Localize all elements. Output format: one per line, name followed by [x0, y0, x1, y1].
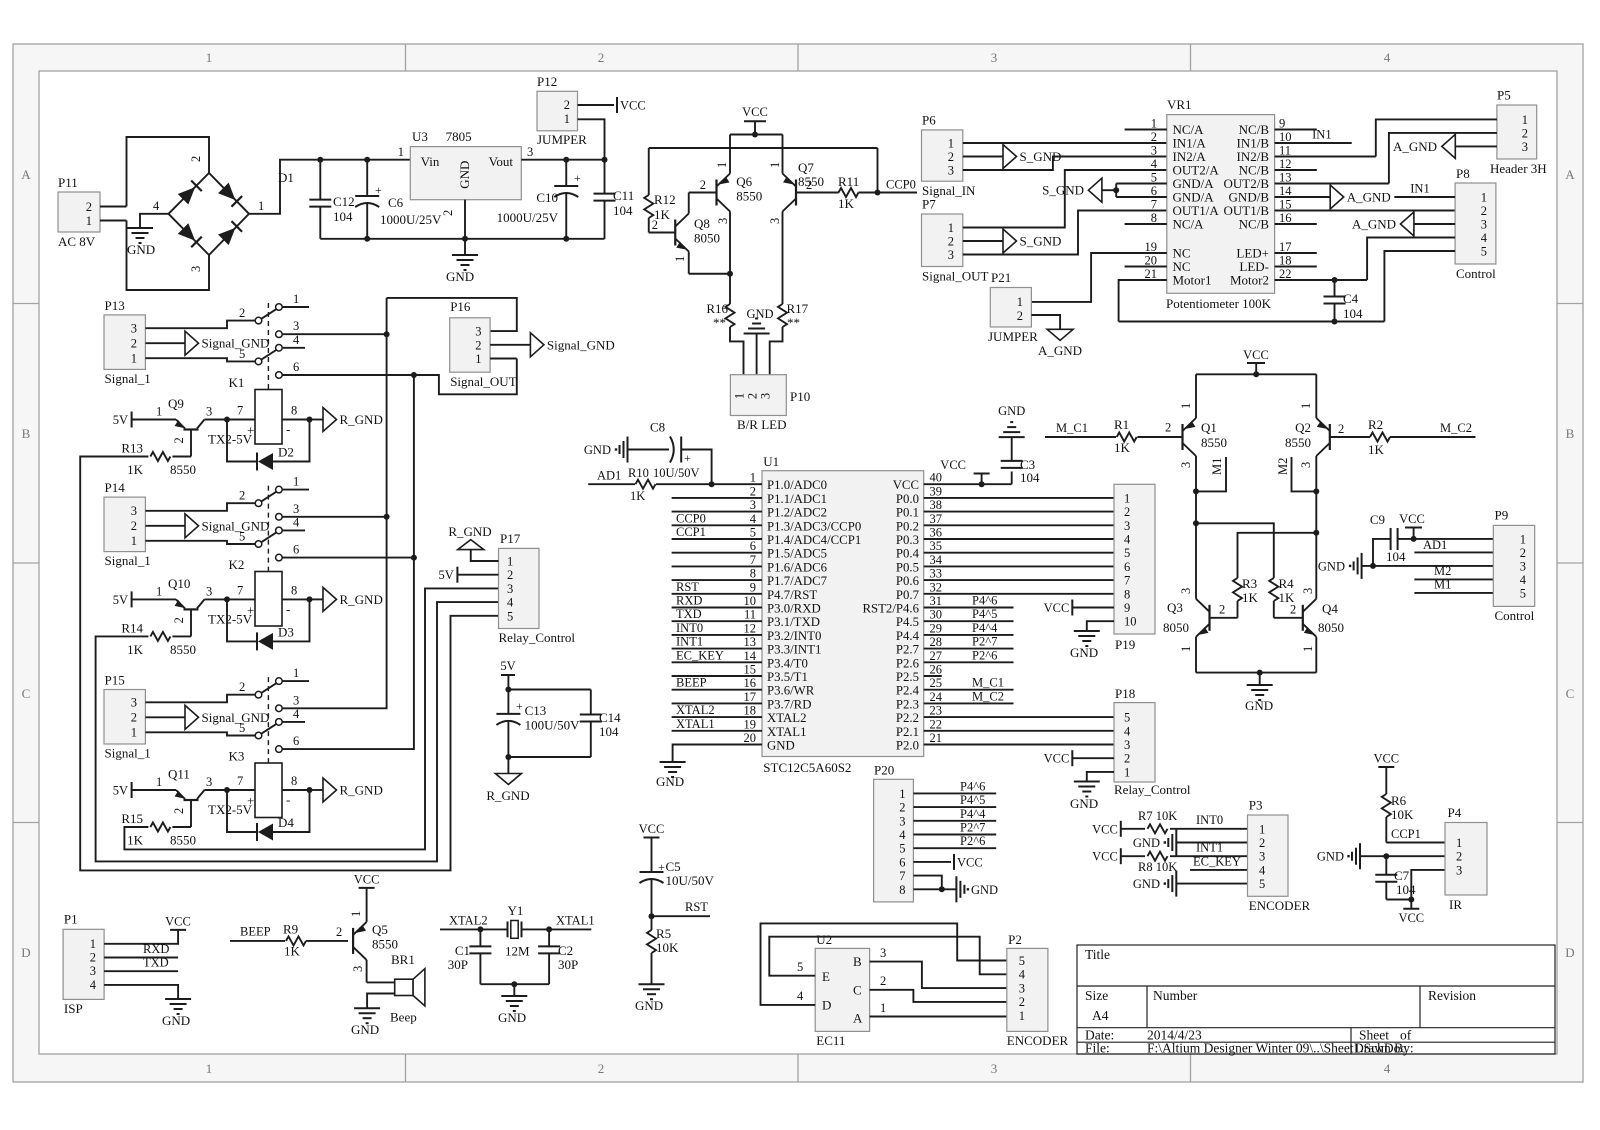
mechanical link dashed — [267, 486, 269, 572]
svg-text:1: 1 — [349, 911, 363, 917]
svg-text:P1.7/ADC7: P1.7/ADC7 — [767, 574, 828, 588]
svg-text:2: 2 — [746, 393, 760, 399]
capacitor C11 — [604, 160, 606, 194]
wire contact 4 stub — [282, 529, 305, 531]
wire 5V to Q10 — [132, 598, 176, 600]
svg-text:1: 1 — [673, 256, 687, 262]
wire VR1 pin1 stub — [1125, 129, 1167, 131]
svg-text:S_GND: S_GND — [1042, 183, 1084, 198]
svg-text:P2.7: P2.7 — [896, 643, 920, 657]
connector P8 — [1455, 183, 1496, 264]
capacitor C1 — [479, 929, 481, 946]
bridge diode top-right — [218, 183, 235, 200]
svg-text:7: 7 — [237, 404, 243, 418]
svg-text:GND: GND — [457, 161, 472, 189]
power VCC — [616, 97, 618, 113]
svg-text:1K: 1K — [1114, 440, 1131, 455]
switch contacts — [255, 691, 262, 698]
svg-text:38: 38 — [930, 498, 943, 512]
svg-text:2: 2 — [598, 1061, 605, 1076]
svg-text:Signal_1: Signal_1 — [105, 746, 151, 761]
svg-text:VCC: VCC — [1092, 850, 1118, 864]
bridge diode top-left — [178, 187, 195, 204]
svg-text:104: 104 — [1343, 306, 1363, 321]
connector P15 — [104, 690, 145, 745]
power port S_GND — [1003, 229, 1017, 253]
net AD1 / resistor R10 / pin1 — [588, 483, 635, 485]
ground side — [1175, 830, 1177, 856]
svg-text:M1: M1 — [1434, 578, 1451, 592]
svg-text:ENCODER: ENCODER — [1007, 1033, 1069, 1048]
svg-text:VCC: VCC — [957, 855, 983, 869]
capacitor C13 — [507, 690, 509, 714]
wire VR1 pin21 Motor1 — [1119, 280, 1167, 322]
wire VCC rail — [1196, 373, 1316, 375]
svg-text:Q11: Q11 — [168, 767, 190, 782]
svg-text:P3.5/T1: P3.5/T1 — [767, 670, 808, 684]
svg-text:4: 4 — [899, 828, 906, 842]
svg-text:VCC: VCC — [940, 458, 966, 472]
svg-text:Revision: Revision — [1428, 988, 1476, 1003]
svg-text:R13: R13 — [121, 441, 143, 456]
wire P16 pin1 — [490, 358, 517, 360]
mechanical link dashed — [267, 303, 269, 390]
wire P3 pin4 — [1190, 869, 1248, 871]
wire VR1 pin14 A_GND — [1275, 196, 1331, 198]
svg-text:8: 8 — [1124, 587, 1130, 601]
wire U1 left pins — [672, 497, 762, 499]
svg-text:Vin: Vin — [421, 154, 440, 169]
wire contact 1 stub — [282, 680, 309, 682]
svg-text:P4.5: P4.5 — [896, 615, 919, 629]
svg-text:8: 8 — [750, 567, 756, 581]
svg-text:1: 1 — [750, 471, 756, 485]
svg-text:-: - — [286, 422, 290, 437]
svg-text:1: 1 — [1019, 1009, 1025, 1023]
svg-text:13: 13 — [744, 635, 757, 649]
wire RST — [652, 915, 711, 917]
net M2 — [1313, 488, 1319, 494]
svg-text:P4^4: P4^4 — [960, 807, 986, 821]
wire P15 pin1 to contact 5 — [145, 732, 255, 735]
svg-text:P1.4/ADC4/CCP1: P1.4/ADC4/CCP1 — [767, 533, 861, 547]
svg-text:B: B — [1566, 426, 1575, 441]
wire bus contacts-6 — [282, 359, 517, 395]
wire P4 pin2 GND — [1360, 855, 1445, 857]
svg-text:P8: P8 — [1456, 166, 1470, 181]
svg-text:10: 10 — [744, 594, 757, 608]
svg-text:P6: P6 — [922, 113, 936, 128]
svg-text:1: 1 — [715, 162, 729, 168]
svg-text:P1.1/ADC1: P1.1/ADC1 — [767, 492, 827, 506]
wire Q9 base — [190, 430, 192, 457]
wire K2 pin8 — [282, 598, 310, 600]
svg-text:7: 7 — [899, 869, 905, 883]
svg-text:File:: File: — [1085, 1041, 1110, 1056]
net M_C1 pin25 — [924, 689, 1014, 691]
svg-text:4: 4 — [1259, 863, 1266, 877]
wire K3 pin8 — [282, 789, 310, 791]
svg-text:1: 1 — [1179, 646, 1193, 652]
svg-text:GND: GND — [1133, 877, 1160, 891]
svg-text:2: 2 — [86, 200, 92, 214]
connector P1 — [63, 929, 104, 999]
svg-text:R_GND: R_GND — [340, 592, 383, 607]
switch contacts — [255, 500, 262, 507]
svg-text:4: 4 — [90, 978, 97, 992]
svg-text:2: 2 — [1165, 421, 1171, 435]
power 5V P17 pin2 — [456, 567, 458, 583]
wire C7 bottom to VCC and P4 pin3 — [1386, 899, 1411, 901]
svg-text:1: 1 — [1179, 403, 1193, 409]
wire A_GND bottom rail — [1119, 321, 1385, 323]
svg-text:8: 8 — [899, 883, 905, 897]
svg-text:C8: C8 — [650, 420, 665, 435]
svg-text:Title: Title — [1085, 947, 1110, 962]
svg-text:D: D — [1565, 945, 1574, 960]
svg-text:104: 104 — [1020, 470, 1040, 485]
svg-text:R3: R3 — [1242, 576, 1257, 591]
svg-text:D: D — [822, 998, 831, 1013]
svg-text:5V: 5V — [113, 784, 128, 798]
svg-text:5: 5 — [1019, 954, 1025, 968]
svg-text:Header 3H: Header 3H — [1490, 161, 1547, 176]
transistor Q10 8550 — [184, 608, 199, 610]
svg-text:9: 9 — [1124, 601, 1130, 615]
connector P11 — [58, 192, 100, 232]
svg-text:2: 2 — [1290, 603, 1296, 617]
svg-text:20: 20 — [1145, 254, 1158, 268]
svg-text:GND: GND — [971, 883, 998, 897]
svg-text:30: 30 — [930, 608, 943, 622]
svg-text:R9: R9 — [283, 922, 298, 937]
wire Q11 collector — [205, 789, 256, 791]
wire Q5 collector to speaker — [367, 981, 395, 983]
svg-text:P4^5: P4^5 — [972, 607, 997, 621]
svg-text:3: 3 — [991, 50, 998, 65]
resistor R8 — [1121, 855, 1145, 857]
wire P8 pin5 — [1384, 251, 1455, 322]
wire Q8 base — [649, 232, 676, 234]
svg-text:EC_KEY: EC_KEY — [1193, 855, 1241, 869]
resistor R1 — [1117, 433, 1137, 442]
svg-text:17: 17 — [744, 690, 757, 704]
svg-text:6: 6 — [293, 734, 299, 748]
svg-text:31: 31 — [930, 594, 943, 608]
svg-text:3: 3 — [1124, 519, 1130, 533]
wire BEEP — [230, 940, 285, 942]
svg-text:3: 3 — [1179, 588, 1193, 594]
svg-text:3: 3 — [991, 1061, 998, 1076]
svg-text:1K: 1K — [284, 944, 301, 959]
wire XTAL2 — [440, 928, 507, 930]
resistor R6 — [1382, 794, 1391, 817]
svg-text:XTAL1: XTAL1 — [767, 725, 807, 739]
transistor Q6 8550 — [715, 180, 717, 206]
wire VR1 pin15 to P8 pin2 — [1275, 210, 1456, 212]
transistor Q9 8550 — [184, 428, 199, 430]
svg-text:EC_KEY: EC_KEY — [676, 648, 724, 662]
svg-text:C4: C4 — [1343, 291, 1359, 306]
resistor R13 — [172, 456, 191, 458]
svg-text:P12: P12 — [537, 74, 557, 89]
svg-text:P19: P19 — [1115, 637, 1135, 652]
wire Q2 base to R2 — [1330, 436, 1370, 438]
wire P8 pin4 — [1367, 238, 1455, 281]
wire cross couple right — [1313, 530, 1319, 536]
svg-text:3: 3 — [206, 775, 212, 789]
svg-text:1: 1 — [258, 199, 264, 213]
svg-text:Relay_Control: Relay_Control — [499, 630, 576, 645]
svg-text:Size: Size — [1085, 988, 1108, 1003]
svg-text:CCP1: CCP1 — [1391, 827, 1421, 841]
IC U2 EC11 — [815, 948, 869, 1031]
svg-text:CCP1: CCP1 — [676, 525, 706, 539]
svg-text:2: 2 — [239, 306, 245, 320]
svg-text:3: 3 — [1456, 863, 1462, 877]
ground — [354, 1007, 380, 1009]
wire P20 pin8 GND — [913, 888, 956, 890]
svg-text:2: 2 — [131, 711, 137, 725]
power port S_GND — [1003, 145, 1017, 169]
svg-text:8: 8 — [1151, 211, 1157, 225]
svg-text:5V: 5V — [113, 413, 128, 427]
wire M_C2 — [1390, 436, 1476, 438]
svg-text:7: 7 — [1151, 198, 1157, 212]
svg-text:3: 3 — [351, 966, 365, 972]
svg-text:104: 104 — [333, 209, 353, 224]
svg-text:7805: 7805 — [446, 129, 472, 144]
svg-text:2: 2 — [806, 178, 812, 192]
svg-text:P2.3: P2.3 — [896, 697, 919, 711]
svg-text:34: 34 — [930, 553, 943, 567]
wire speaker to GND — [367, 994, 395, 1009]
svg-text:3: 3 — [189, 266, 203, 272]
svg-text:5: 5 — [1124, 546, 1130, 560]
svg-text:9: 9 — [1279, 117, 1285, 131]
svg-text:U3: U3 — [412, 129, 428, 144]
svg-text:104: 104 — [1386, 549, 1406, 564]
wire VR1 pin18 stub — [1275, 266, 1317, 268]
svg-text:P0.4: P0.4 — [896, 547, 920, 561]
svg-text:RXD: RXD — [676, 594, 702, 608]
svg-text:P2.5: P2.5 — [896, 670, 919, 684]
power port R_GND — [507, 757, 509, 774]
svg-text:RXD: RXD — [143, 942, 169, 956]
svg-text:3: 3 — [1019, 981, 1025, 995]
svg-text:16: 16 — [744, 676, 757, 690]
transistor Q5 8550 — [352, 928, 354, 954]
svg-text:4: 4 — [153, 199, 160, 213]
svg-text:3: 3 — [1481, 218, 1487, 232]
svg-text:1000U/25V: 1000U/25V — [497, 210, 559, 225]
wire R9 to Q5 — [306, 940, 348, 942]
svg-text:P4.4: P4.4 — [896, 629, 920, 643]
svg-text:6: 6 — [293, 543, 299, 557]
svg-text:Q6: Q6 — [736, 174, 752, 189]
svg-text:M_C1: M_C1 — [972, 676, 1004, 690]
svg-text:AD1: AD1 — [1423, 538, 1447, 552]
svg-text:1: 1 — [1520, 532, 1526, 546]
svg-text:6: 6 — [899, 855, 905, 869]
resistor R7 — [1121, 828, 1145, 830]
bridge rectifier D1 frame — [127, 137, 210, 207]
svg-text:Q5: Q5 — [372, 922, 388, 937]
wire R14 bus to P17 pin4 — [96, 602, 499, 861]
svg-text:104: 104 — [1396, 882, 1416, 897]
svg-text:K2: K2 — [229, 557, 245, 572]
wire Q4 base — [1274, 617, 1303, 619]
svg-text:INT0: INT0 — [1196, 813, 1223, 827]
ground — [1074, 630, 1100, 632]
wire P1 pin2 RXD — [104, 957, 178, 959]
svg-text:10: 10 — [1279, 130, 1292, 144]
svg-text:1: 1 — [1124, 765, 1130, 779]
wire U2 pinA route — [870, 1016, 1007, 1018]
IC U1 STC12C5A60S2 — [762, 471, 924, 757]
svg-text:BEEP: BEEP — [676, 676, 707, 690]
ground — [165, 998, 191, 1000]
svg-text:VCC: VCC — [1044, 601, 1070, 615]
svg-text:3: 3 — [293, 502, 299, 516]
relay K1 TX2-5V — [255, 390, 282, 445]
svg-text:2: 2 — [700, 178, 706, 192]
svg-text:7: 7 — [1124, 574, 1130, 588]
wire P6 pin3 to VR1 pin3 — [963, 157, 1167, 171]
svg-text:C5: C5 — [666, 859, 681, 874]
svg-text:CCP0: CCP0 — [886, 178, 916, 192]
ground side — [1175, 871, 1177, 897]
resistor R17 — [778, 304, 787, 327]
svg-text:8050: 8050 — [1318, 620, 1344, 635]
wire contact 4 stub — [282, 721, 305, 723]
svg-text:10: 10 — [1124, 615, 1137, 629]
wire Q6 base — [689, 192, 717, 194]
svg-text:TX2-5V: TX2-5V — [208, 432, 253, 447]
svg-text:6: 6 — [750, 539, 756, 553]
power VCC — [170, 929, 186, 931]
svg-text:1: 1 — [156, 405, 162, 419]
wire VR1 pin19 to P21 — [1031, 253, 1166, 302]
power port S_GND — [1088, 178, 1102, 202]
svg-text:Potentiometer 100K: Potentiometer 100K — [1166, 296, 1272, 311]
svg-text:JUMPER: JUMPER — [988, 329, 1038, 344]
svg-text:GND: GND — [498, 1010, 526, 1025]
svg-text:R_GND: R_GND — [340, 412, 383, 427]
connector P19 — [1114, 484, 1155, 634]
ground — [452, 254, 478, 256]
svg-text:1: 1 — [131, 534, 137, 548]
connector P2 — [1007, 948, 1048, 1031]
svg-text:36: 36 — [930, 526, 943, 540]
connector P6 — [922, 130, 963, 181]
svg-text:STC12C5A60S2: STC12C5A60S2 — [763, 760, 851, 775]
svg-text:Q10: Q10 — [168, 576, 190, 591]
svg-text:+: + — [684, 451, 691, 465]
connector P9 — [1493, 525, 1534, 606]
svg-text:1: 1 — [1481, 191, 1487, 205]
svg-text:100U/50V: 100U/50V — [525, 718, 581, 733]
svg-text:28: 28 — [930, 635, 943, 649]
power VCC P19 pin9 — [1071, 600, 1073, 616]
svg-text:8550: 8550 — [736, 189, 762, 204]
wire P12 pin1 — [578, 119, 605, 159]
net labels P4/P2 rows — [924, 607, 1014, 609]
svg-text:A: A — [1565, 167, 1575, 182]
svg-text:D4: D4 — [278, 815, 294, 830]
transistor Q2 8550 — [1329, 424, 1331, 450]
ground — [127, 227, 153, 229]
svg-text:TX2-5V: TX2-5V — [208, 802, 253, 817]
svg-text:15: 15 — [1279, 198, 1292, 212]
svg-text:VCC: VCC — [639, 822, 665, 836]
svg-text:P3.3/INT1: P3.3/INT1 — [767, 643, 821, 657]
wire R7 to P3 pin1 — [1170, 828, 1248, 830]
wire P3 pin2 GND — [1176, 842, 1247, 844]
wire P8 pin3 A_GND — [1414, 223, 1455, 225]
svg-text:1K: 1K — [630, 489, 645, 503]
svg-text:3: 3 — [1522, 140, 1528, 154]
svg-text:P9: P9 — [1495, 508, 1509, 523]
wire P14 pin1 to contact 5 — [145, 541, 255, 544]
svg-text:P2.0: P2.0 — [896, 739, 919, 753]
svg-text:XTAL1: XTAL1 — [556, 914, 595, 928]
svg-text:2: 2 — [1124, 752, 1130, 766]
wire P18 pin1 GND — [1087, 772, 1114, 782]
wire pin26 stub — [924, 675, 942, 677]
svg-text:104: 104 — [613, 203, 633, 218]
wire U2 pin4 route — [761, 923, 1007, 1005]
svg-text:1: 1 — [899, 787, 905, 801]
svg-text:24: 24 — [930, 690, 943, 704]
svg-text:P0.5: P0.5 — [896, 560, 919, 574]
wire P7 pin3 to VR1 pin7 — [963, 211, 1167, 255]
wire VR1 pin11 to P5 pin1 — [1275, 156, 1376, 158]
wire bus contacts-3 — [282, 333, 386, 335]
svg-text:1: 1 — [156, 584, 162, 598]
svg-text:P21: P21 — [991, 270, 1011, 285]
connector P14 — [104, 497, 145, 551]
svg-text:5V: 5V — [113, 593, 128, 607]
wire xtal gnd rail — [480, 983, 549, 985]
svg-text:10U/50V: 10U/50V — [653, 466, 700, 480]
svg-text:1: 1 — [1522, 113, 1528, 127]
connector P12 — [537, 91, 578, 131]
svg-text:A_GND: A_GND — [1393, 139, 1437, 154]
wire Q3 base — [1210, 617, 1238, 619]
svg-text:8050: 8050 — [694, 231, 720, 246]
connector P5 — [1497, 105, 1537, 159]
svg-text:2: 2 — [598, 50, 605, 65]
svg-text:VCC: VCC — [893, 478, 919, 492]
svg-text:C6: C6 — [388, 195, 404, 210]
svg-text:EC11: EC11 — [816, 1033, 845, 1048]
svg-text:1: 1 — [1151, 117, 1157, 131]
wire R6 to P4 pin1 — [1386, 842, 1445, 844]
svg-text:R8 10K: R8 10K — [1138, 860, 1177, 874]
svg-text:M2: M2 — [1434, 564, 1451, 578]
wire P15 pin3 to contact 2 — [145, 695, 255, 703]
svg-text:P20: P20 — [874, 763, 894, 778]
svg-text:29: 29 — [930, 621, 943, 635]
svg-text:P1.6/ADC6: P1.6/ADC6 — [767, 560, 828, 574]
net M_C2 pin24 — [924, 702, 1014, 704]
svg-text:P4^4: P4^4 — [972, 621, 998, 635]
svg-text:P1.2/ADC2: P1.2/ADC2 — [767, 506, 827, 520]
svg-text:2: 2 — [564, 98, 570, 112]
svg-text:Signal_1: Signal_1 — [105, 371, 151, 386]
svg-text:19: 19 — [744, 717, 757, 731]
